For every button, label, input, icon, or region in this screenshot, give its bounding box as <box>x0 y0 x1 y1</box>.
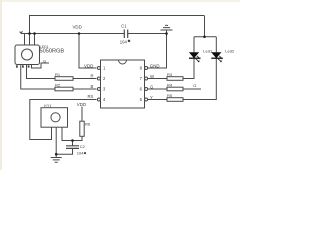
svg-text:R1: R1 <box>55 72 61 77</box>
pin 3 bubble <box>97 88 100 91</box>
node junction dots <box>28 32 206 155</box>
wire pin 6 to R4 <box>148 88 167 90</box>
svg-text:G: G <box>193 83 196 88</box>
wire LED1 cathode to R3 <box>183 58 194 78</box>
wire 5050 G stub <box>32 63 50 68</box>
node LED rail junction <box>203 36 206 39</box>
pin 2 bubble <box>97 77 100 80</box>
svg-text:C2: C2 <box>80 144 86 149</box>
svg-text:RX: RX <box>88 94 94 99</box>
svg-text:5: 5 <box>140 97 143 102</box>
wire pin 7 to R3 <box>148 78 167 80</box>
LED module LED1 5050RGB body <box>15 45 40 65</box>
wire VDD top rail <box>30 16 205 34</box>
node ground junction <box>55 153 58 156</box>
sheet edge tint left <box>0 0 2 170</box>
wire key center lead to ground <box>55 127 57 154</box>
node 5050 pin3 junction <box>33 32 36 35</box>
pin 5 bubble <box>145 98 148 101</box>
resistor R1 <box>55 77 73 81</box>
sheet edge tint top <box>0 0 240 2</box>
svg-text:B: B <box>91 84 94 89</box>
svg-text:6: 6 <box>140 87 143 92</box>
wire R1 to pin 2 <box>73 78 97 80</box>
resistor R3 <box>167 77 183 81</box>
svg-text:G: G <box>150 85 153 90</box>
resistor R4 <box>167 87 183 91</box>
svg-text:KY1: KY1 <box>44 104 51 108</box>
svg-text:R5: R5 <box>167 93 173 98</box>
svg-text:4: 4 <box>103 97 106 102</box>
wire VDD to R6 <box>81 107 83 122</box>
wire pin 4 to key <box>30 100 97 140</box>
op-amp U1 IC body <box>97 60 147 108</box>
wire key left lead <box>51 127 53 139</box>
svg-text:R3: R3 <box>167 72 173 77</box>
svg-text:2: 2 <box>103 76 106 81</box>
svg-text:VDD: VDD <box>84 63 93 68</box>
svg-text:GND: GND <box>150 63 160 68</box>
svg-text:104: 104 <box>120 39 128 44</box>
wire LED2 cathode to R5 <box>183 58 216 99</box>
ground <box>51 154 62 162</box>
key KY1 body <box>41 108 68 128</box>
pin 7 bubble <box>145 77 148 80</box>
LED module bottom pin marks <box>16 65 30 67</box>
svg-text:7: 7 <box>140 76 143 81</box>
pin 6 bubble <box>145 88 148 91</box>
svg-text:G: G <box>43 58 46 63</box>
resistor R6 <box>80 121 84 136</box>
node key RC junction <box>71 139 74 142</box>
LED Led2 <box>211 52 222 62</box>
wire 5050 to R1 <box>27 65 56 79</box>
svg-text:Led2: Led2 <box>225 48 235 53</box>
wire 5050 top pin 1 <box>24 34 26 46</box>
wire rail hook <box>20 31 23 33</box>
svg-text:3: 3 <box>103 87 106 92</box>
wire LED2 anode lead <box>215 37 217 53</box>
wire 5050 top pin 3 <box>34 34 36 46</box>
ground GND node bars top <box>161 25 173 33</box>
capacitor C2 value dot <box>84 152 86 154</box>
svg-text:5050RGB: 5050RGB <box>40 49 65 55</box>
wire LED anode rail <box>194 36 216 38</box>
wire R4 G stub <box>183 88 201 90</box>
wire GND node riser to pin 8 <box>148 34 167 69</box>
wire 5050 to R2 <box>21 65 55 90</box>
svg-text:R: R <box>91 74 94 79</box>
node VDD junction <box>78 32 81 35</box>
svg-text:104: 104 <box>77 151 84 156</box>
LED Led1 <box>189 52 200 62</box>
wire 5050 top pin 2 <box>29 34 31 46</box>
wire LED rail riser <box>204 16 206 37</box>
resistor R5 <box>167 98 183 102</box>
wire VDD rail left segment <box>21 33 124 35</box>
wire R6 bottom to key lead <box>62 127 82 140</box>
capacitor C1 value dot <box>128 40 131 43</box>
svg-text:1: 1 <box>103 66 106 71</box>
svg-text:R4: R4 <box>167 83 173 88</box>
svg-text:VDD: VDD <box>73 25 82 30</box>
node GND junction <box>165 32 168 35</box>
capacitor C1 <box>124 30 127 39</box>
wire C2 to ground return <box>56 148 72 154</box>
svg-text:8: 8 <box>140 66 143 71</box>
wire C1 to GND node <box>128 33 167 35</box>
pin 4 bubble <box>97 98 100 101</box>
node 5050 pin2 junction <box>28 32 31 35</box>
svg-text:C1: C1 <box>121 23 127 28</box>
pin 1 bubble <box>97 67 100 70</box>
pin 8 bubble <box>145 67 148 70</box>
wire R2 to pin 3 <box>73 88 97 90</box>
svg-text:R2: R2 <box>55 83 61 88</box>
wire C2 tap <box>72 141 74 146</box>
resistor R2 <box>55 87 73 91</box>
wire LED1 anode lead <box>193 37 195 53</box>
capacitor C2 <box>66 146 79 149</box>
wire pin 1 VDD riser <box>79 34 97 69</box>
wire pin 5 to R5 <box>148 99 167 101</box>
svg-text:Y: Y <box>150 95 153 100</box>
svg-text:R6: R6 <box>85 121 91 126</box>
svg-text:W: W <box>150 74 154 79</box>
svg-text:VDD: VDD <box>77 102 86 107</box>
